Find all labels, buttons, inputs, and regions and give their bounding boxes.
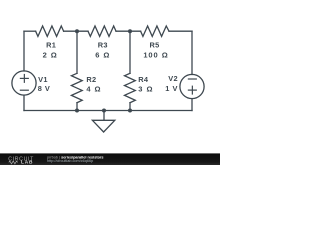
svg-text:R1: R1 — [46, 41, 56, 50]
svg-text:R5: R5 — [149, 41, 159, 50]
svg-text:8 V: 8 V — [38, 84, 51, 93]
svg-text:LAB: LAB — [21, 160, 33, 165]
svg-text:2 Ω: 2 Ω — [43, 50, 58, 59]
svg-text:100 Ω: 100 Ω — [143, 50, 168, 59]
svg-text:1 V: 1 V — [165, 84, 178, 93]
svg-text:R4: R4 — [138, 75, 149, 84]
svg-text:4 Ω: 4 Ω — [86, 85, 101, 94]
svg-text:http://circuitlab.com/c6q66p: http://circuitlab.com/c6q66p — [47, 159, 93, 163]
svg-text:R2: R2 — [86, 75, 96, 84]
svg-text:V2: V2 — [168, 74, 178, 83]
svg-text:R3: R3 — [98, 41, 108, 50]
svg-text:3 Ω: 3 Ω — [138, 85, 153, 94]
svg-text:6 Ω: 6 Ω — [95, 50, 110, 59]
